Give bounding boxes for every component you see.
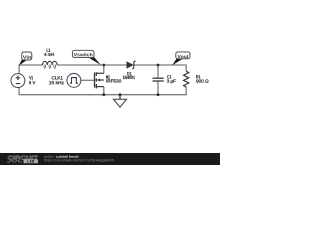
label IRF530 (106, 79, 121, 82)
wire CLK1 to M1 gate (81, 79, 95, 81)
wire top rail (D1 cathode to top-right corner) (134, 64, 186, 66)
inductor L1 (42, 61, 57, 68)
label D1 (127, 72, 131, 75)
voltage source V1 (11, 74, 25, 88)
wire left vertical (corner to V1 top) (18, 65, 20, 74)
node dot M1 source (102, 93, 105, 96)
label M1 (106, 75, 109, 78)
node dot C1 bottom (157, 93, 160, 96)
footer text line 1 (44, 155, 78, 158)
label 5 V (29, 81, 35, 84)
footer logo LAB box (24, 159, 39, 163)
footer logo CIRCUIT (8, 156, 38, 160)
ground (113, 95, 126, 108)
node label Vin (19, 52, 32, 66)
wire top rail left (Vin corner to L1) (19, 64, 42, 66)
wire bottom rail (19, 94, 186, 96)
label R1 (196, 75, 200, 78)
footer text line 2 (44, 159, 113, 162)
node label Vout (172, 52, 190, 65)
label 15 kHz (49, 81, 64, 84)
node dot M1 drain (102, 64, 105, 67)
wire M1 drain vertical (103, 65, 105, 74)
clock source CLK1 (67, 73, 81, 87)
resistor R1 (184, 71, 189, 87)
label L1 (47, 49, 50, 52)
node dot C1 top (157, 64, 160, 67)
footer logo waveform (7, 160, 22, 162)
node label Vswitch (72, 50, 101, 65)
label C1 (167, 75, 171, 78)
wire C1 top lead (157, 65, 159, 78)
label 3 uF (167, 79, 176, 83)
wire top rail (L1 to D1 anode) (57, 64, 127, 66)
label V1 (29, 76, 33, 79)
diode D1 (127, 61, 136, 69)
label 900 Ohm (196, 79, 208, 82)
wire R1 bottom lead (185, 87, 187, 95)
transistor M1 (NMOS) (95, 72, 104, 88)
wire M1 source vertical (103, 87, 105, 96)
capacitor C1 (153, 78, 164, 81)
node dot ground (119, 93, 122, 96)
wire R1 top lead (185, 65, 187, 72)
footer bar (0, 153, 220, 165)
wire V1 bottom lead (18, 88, 20, 95)
label CLK1 (52, 76, 63, 79)
wire C1 bottom lead (157, 81, 159, 95)
label 4 mH (44, 53, 54, 56)
label 1N4001 (123, 76, 135, 79)
